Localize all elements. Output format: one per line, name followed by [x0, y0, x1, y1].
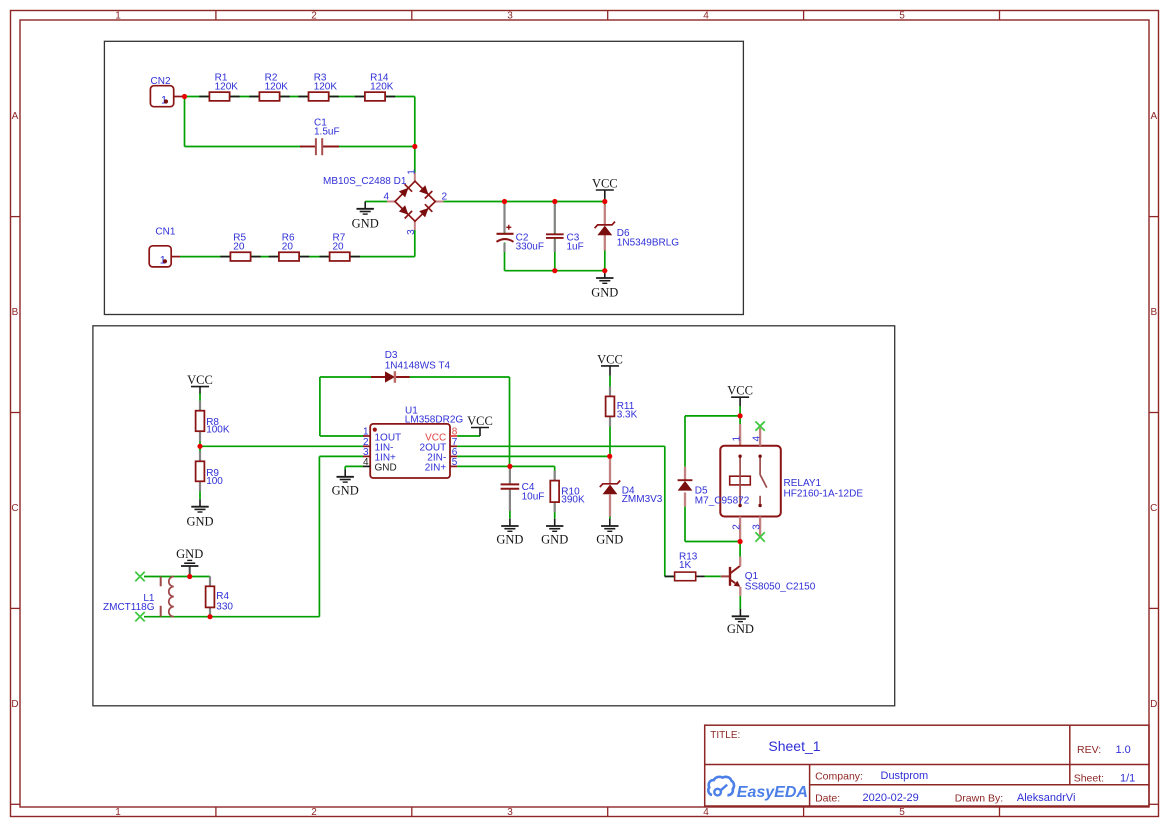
- svg-text:100K: 100K: [206, 425, 230, 436]
- svg-text:D3: D3: [385, 350, 398, 361]
- svg-text:1N5349BRLG: 1N5349BRLG: [617, 237, 679, 248]
- svg-text:M7_C95872: M7_C95872: [695, 495, 750, 506]
- svg-text:4: 4: [703, 11, 709, 22]
- svg-text:2: 2: [311, 807, 317, 818]
- svg-text:120K: 120K: [265, 81, 289, 92]
- svg-text:120K: 120K: [370, 81, 394, 92]
- svg-text:VCC: VCC: [187, 373, 213, 387]
- svg-text:4: 4: [703, 807, 709, 818]
- svg-text:ZMCT118G: ZMCT118G: [103, 602, 155, 613]
- svg-text:Date:: Date:: [815, 793, 840, 805]
- svg-text:REV:: REV:: [1077, 744, 1101, 756]
- svg-text:GND: GND: [332, 483, 359, 497]
- svg-text:390K: 390K: [561, 494, 585, 505]
- svg-text:120K: 120K: [215, 81, 239, 92]
- svg-text:HF2160-1A-12DE: HF2160-1A-12DE: [784, 489, 864, 500]
- svg-text:5: 5: [899, 807, 905, 818]
- svg-text:VCC: VCC: [597, 352, 623, 366]
- svg-text:A: A: [1150, 111, 1157, 122]
- svg-text:Drawn By:: Drawn By:: [955, 793, 1003, 805]
- svg-text:1uF: 1uF: [567, 241, 584, 252]
- svg-text:GND: GND: [176, 547, 203, 561]
- svg-text:Dustprom: Dustprom: [881, 770, 929, 782]
- svg-text:1: 1: [115, 807, 121, 818]
- svg-text:Sheet:: Sheet:: [1074, 772, 1104, 784]
- svg-text:GND: GND: [727, 622, 754, 636]
- svg-text:EasyEDA: EasyEDA: [737, 784, 808, 801]
- svg-text:Sheet_1: Sheet_1: [768, 738, 820, 754]
- svg-text:4: 4: [383, 192, 389, 203]
- svg-text:VCC: VCC: [592, 176, 618, 190]
- svg-text:Company:: Company:: [815, 771, 863, 783]
- svg-text:2020-02-29: 2020-02-29: [863, 792, 919, 804]
- svg-text:TITLE:: TITLE:: [710, 730, 740, 741]
- svg-text:CN1: CN1: [155, 227, 175, 238]
- svg-text:B: B: [12, 307, 19, 318]
- svg-text:3: 3: [507, 11, 513, 22]
- svg-text:SS8050_C2150: SS8050_C2150: [745, 581, 816, 592]
- svg-text:MB10S_C2488 D1: MB10S_C2488 D1: [323, 176, 407, 187]
- svg-text:D: D: [11, 699, 18, 710]
- svg-text:GND: GND: [496, 533, 523, 547]
- svg-text:1.0: 1.0: [1116, 744, 1131, 756]
- svg-text:330uF: 330uF: [516, 241, 544, 252]
- svg-text:2IN+: 2IN+: [425, 463, 447, 474]
- svg-text:B: B: [1150, 307, 1157, 318]
- svg-text:3: 3: [751, 524, 762, 530]
- svg-text:VCC: VCC: [467, 414, 493, 428]
- svg-text:GND: GND: [186, 514, 213, 528]
- svg-text:20: 20: [233, 241, 245, 252]
- svg-text:GND: GND: [352, 217, 379, 231]
- svg-text:4: 4: [363, 457, 369, 468]
- svg-text:GND: GND: [375, 463, 397, 474]
- svg-text:4: 4: [751, 436, 762, 442]
- svg-text:10uF: 10uF: [522, 491, 545, 502]
- svg-text:5: 5: [452, 457, 458, 468]
- svg-text:LM358DR2G: LM358DR2G: [405, 415, 464, 426]
- svg-text:3.3K: 3.3K: [617, 409, 638, 420]
- svg-text:C: C: [1150, 503, 1157, 514]
- svg-text:1/1: 1/1: [1120, 772, 1135, 784]
- svg-text:A: A: [12, 111, 19, 122]
- svg-text:120K: 120K: [314, 81, 338, 92]
- svg-text:C: C: [11, 503, 18, 514]
- svg-text:1: 1: [406, 169, 417, 175]
- svg-text:2: 2: [442, 192, 448, 203]
- svg-text:VCC: VCC: [727, 384, 753, 398]
- svg-text:RELAY1: RELAY1: [784, 478, 822, 489]
- svg-text:20: 20: [282, 241, 294, 252]
- svg-text:CN2: CN2: [151, 76, 171, 87]
- svg-text:100: 100: [206, 476, 223, 487]
- svg-text:GND: GND: [541, 533, 568, 547]
- svg-text:3: 3: [406, 229, 417, 235]
- svg-text:1.5uF: 1.5uF: [314, 126, 340, 137]
- svg-text:2: 2: [311, 11, 317, 22]
- svg-text:20: 20: [333, 241, 345, 252]
- svg-text:D: D: [1150, 699, 1157, 710]
- svg-text:5: 5: [899, 11, 905, 22]
- svg-text:2: 2: [731, 524, 742, 530]
- svg-text:1: 1: [115, 11, 121, 22]
- svg-text:ZMM3V3: ZMM3V3: [622, 494, 663, 505]
- svg-text:1K: 1K: [679, 560, 692, 571]
- svg-text:GND: GND: [591, 286, 618, 300]
- svg-text:GND: GND: [596, 533, 623, 547]
- svg-text:1N4148WS T4: 1N4148WS T4: [385, 360, 451, 371]
- svg-text:1: 1: [731, 436, 742, 442]
- svg-text:330: 330: [216, 601, 233, 612]
- svg-text:AleksandrVi: AleksandrVi: [1017, 792, 1076, 804]
- svg-text:3: 3: [507, 807, 513, 818]
